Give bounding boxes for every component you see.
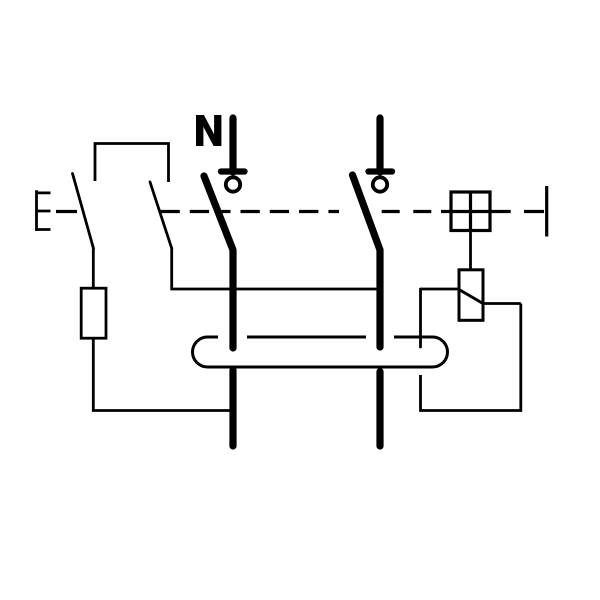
lead mechanism to relay [469,231,472,270]
wire resistor to pole 1 below toroid [93,338,233,411]
linkage solid run through mechanism square [441,210,511,213]
sense winding wire lower and loop [421,304,521,411]
pole 1 switch blade and upper conductor [204,176,233,348]
test switch blade 2 [150,182,172,248]
wire blade2 to pole 2 above toroid [172,248,380,290]
trip relay diagonal [459,290,483,304]
terminal circle L2 [373,177,387,191]
dashed linkage line (pole 2 to mechanism) [382,210,432,213]
pole 2 lower conductor [376,372,383,447]
mechanism cross vertical [469,192,472,231]
dashed linkage line (segment between test blades to pole 2) [161,210,211,213]
right handle bar [545,186,548,237]
terminal lead L2 [376,118,383,172]
trip relay rectangle [459,270,483,321]
sense winding wire upper [419,289,422,347]
relay left wire [421,288,460,291]
relay right wire [483,302,521,305]
resistor [81,288,106,338]
test switch blade 1 [73,174,94,249]
label N [196,115,221,146]
dash before right handle [524,210,544,213]
pole 1 lower conductor [229,370,236,446]
terminal T-bar L2 [369,168,393,174]
terminal lead L1 (N pole) [229,118,236,172]
terminal circle L1 [226,177,240,191]
terminal T-bar L1 [221,168,245,174]
mechanism square with cross [451,192,490,231]
toroid core (stadium with gaps at pole crossings) [193,337,448,367]
test button E [35,190,50,231]
dash from test button [56,210,77,213]
fixed contact bracket [95,144,169,183]
lead blade1 to resistor [92,248,95,289]
pole 2 switch blade and upper conductor [353,175,381,347]
